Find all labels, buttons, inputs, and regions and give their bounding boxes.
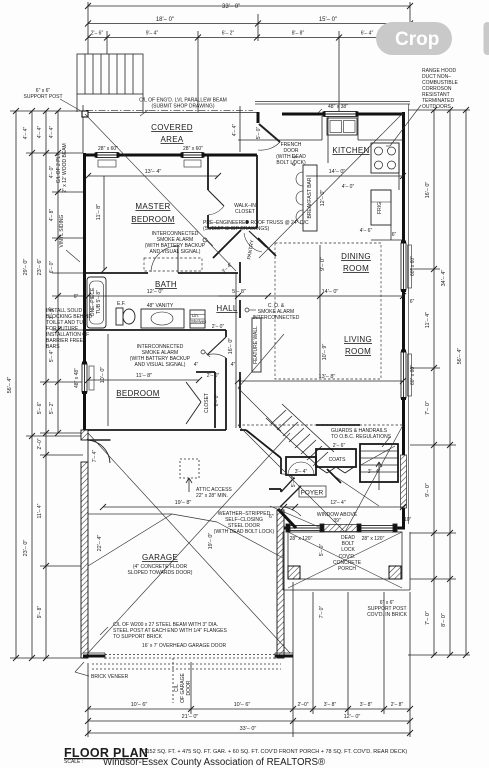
svg-text:13'– 8": 13'– 8": [319, 374, 336, 380]
svg-text:INTERCONNECTED: INTERCONNECTED: [253, 315, 300, 321]
dn arrow: [376, 462, 382, 490]
kitchen window 48x38: [324, 112, 357, 117]
svg-text:FRIG: FRIG: [377, 202, 383, 214]
vertical dim line bedroom 10'-0": [107, 334, 109, 426]
svg-text:5'– 6": 5'– 6": [37, 402, 43, 415]
svg-text:SLOPED TOWARDS DOOR): SLOPED TOWARDS DOOR): [128, 570, 193, 576]
svg-text:DINING: DINING: [341, 252, 371, 261]
svg-text:16' x 7' OVERHEAD GARAGE DOOR: 16' x 7' OVERHEAD GARAGE DOOR: [142, 643, 227, 649]
svg-text:21'– 0": 21'– 0": [182, 714, 199, 720]
pantry angled walls: [213, 230, 276, 258]
right dimension line 34'-4": [449, 110, 451, 655]
svg-text:KITCHEN: KITCHEN: [332, 146, 369, 155]
svg-text:19'– 0": 19'– 0": [208, 533, 214, 550]
svg-text:6": 6": [410, 299, 415, 305]
interior wall: bath top y=273: [84, 272, 238, 274]
svg-text:PORCH: PORCH: [338, 566, 356, 572]
svg-text:10": 10": [404, 517, 412, 523]
svg-text:BARS: BARS: [46, 344, 60, 350]
svg-text:HALL: HALL: [216, 304, 237, 313]
weather-stripped steel door garage/foyer: [281, 474, 294, 492]
svg-text:BEDROOM: BEDROOM: [131, 215, 174, 224]
svg-text:16'– 0": 16'– 0": [228, 338, 234, 355]
dim 13'-4" master bedroom: [88, 175, 218, 177]
svg-text:10'– 6": 10'– 6": [234, 702, 251, 708]
window 28x60 left: [96, 153, 118, 168]
svg-text:TUB 5'– 8": TUB 5'– 8": [96, 290, 102, 314]
svg-text:11'– 8": 11'– 8": [96, 204, 102, 220]
svg-text:11'– 4": 11'– 4": [37, 503, 43, 518]
svg-text:2'– 0": 2'– 0": [207, 373, 220, 379]
garage 19'-8" dim: [103, 506, 295, 508]
svg-text:7'– 0": 7'– 0": [425, 401, 431, 415]
foyer roof diagonals: [270, 446, 395, 527]
garage man-door opening + swing: [88, 440, 111, 463]
front wall brick hatch between windows: [324, 525, 357, 532]
svg-text:9'– 0": 9'– 0": [320, 257, 326, 271]
svg-text:8'– 0": 8'– 0": [441, 613, 447, 627]
toilet E.F.: [116, 308, 135, 325]
svg-text:Shelves: Shelves: [191, 319, 206, 324]
roof diagonal living to stairs: [238, 334, 284, 388]
svg-text:6'– 4": 6'– 4": [361, 31, 374, 37]
vanity 48" with sink: [141, 309, 184, 328]
svg-text:4'– 4": 4'– 4": [49, 126, 55, 139]
garage left wall brick veneer (hatched): [81, 430, 88, 658]
pantry door: [244, 231, 266, 252]
right dimension line 16'/11'-4"/7'/9'/7': [408, 110, 470, 655]
svg-text:5'– 2": 5'– 2": [291, 475, 297, 488]
svg-text:28" x 60": 28" x 60": [183, 146, 203, 152]
svg-text:3'– 4": 3'– 4": [368, 469, 381, 475]
svg-text:5'– 0": 5'– 0": [319, 544, 325, 557]
window foyer right (brick sill hatch): [401, 455, 407, 508]
svg-text:Windsor-Essex County Associati: Windsor-Essex County Association of REAL…: [103, 757, 325, 768]
dining/living dashed ceiling outline: [238, 243, 403, 425]
exterior wall: left wall of house: [83, 153, 86, 438]
svg-text:5'– 8": 5'– 8": [232, 289, 246, 295]
svg-text:4'– 6": 4'– 6": [360, 228, 373, 234]
svg-text:8'– 8": 8'– 8": [292, 31, 305, 37]
long roof diagonal master bedroom: [85, 114, 236, 271]
svg-text:9'– 4": 9'– 4": [146, 31, 159, 37]
svg-text:MASTER: MASTER: [135, 202, 170, 211]
svg-text:VINYL SIDING: VINYL SIDING: [59, 214, 65, 247]
foyer stair-down closet (hatched): [360, 444, 398, 482]
roof eave double line: [255, 102, 410, 105]
svg-text:5'– 4": 5'– 4": [49, 350, 55, 363]
linen shelves: [190, 310, 205, 328]
svg-text:39": 39": [333, 518, 341, 524]
dim 12'-0" bath: [88, 295, 238, 297]
svg-text:BEDROOM: BEDROOM: [116, 389, 159, 398]
left dimension line inner segments: [52, 111, 83, 433]
svg-text:2" x 12' WOOD BEAM: 2" x 12' WOOD BEAM: [62, 143, 68, 192]
kitchen sink double bowl: [327, 118, 357, 135]
svg-text:ROOM: ROOM: [345, 347, 371, 356]
deck support post: [82, 111, 88, 117]
svg-text:22'– 4": 22'– 4": [97, 535, 103, 552]
svg-text:5'– 0": 5'– 0": [256, 127, 262, 140]
svg-text:7'– 4": 7'– 4": [92, 450, 98, 463]
vertical dim line dining/living: [319, 245, 321, 378]
svg-text:56'– 4": 56'– 4": [7, 377, 13, 394]
svg-text:12'– 4": 12'– 4": [330, 500, 345, 506]
vertical dim line master bedroom 11'-8": [103, 176, 105, 270]
svg-text:(SUBMIT SHOP DRAWINGS): (SUBMIT SHOP DRAWINGS): [203, 226, 270, 232]
roof diagonal hall to porch: [238, 388, 281, 431]
svg-text:15'– 0": 15'– 0": [319, 17, 337, 23]
stairs to basement (diagonal): [266, 404, 334, 468]
tub (one-piece 5'-8"): [87, 277, 106, 328]
svg-text:10'– 0": 10'– 0": [100, 367, 106, 384]
svg-text:2'– 0": 2'– 0": [212, 324, 225, 330]
svg-text:34'– 4": 34'– 4": [441, 270, 447, 287]
svg-text:4'– 0": 4'– 0": [342, 184, 355, 190]
svg-text:60" x 60": 60" x 60": [410, 365, 416, 385]
bedroom door swing: [207, 337, 226, 358]
deck inner dim 4'-4": [239, 106, 241, 152]
svg-text:4": 4": [194, 362, 199, 368]
garage attic access dashed: [180, 459, 199, 478]
svg-text:BREAKFAST BAR: BREAKFAST BAR: [307, 177, 313, 218]
svg-text:6'– 0": 6'– 0": [49, 261, 55, 274]
svg-text:5'– 2": 5'– 2": [49, 402, 55, 415]
svg-text:2'–0": 2'–0": [297, 702, 308, 708]
svg-text:3'– 8": 3'– 8": [360, 702, 373, 708]
svg-text:12'– 0": 12'– 0": [147, 289, 164, 295]
covered deck edge: [83, 105, 257, 153]
svg-text:10'– 9": 10'– 9": [322, 344, 328, 361]
garage bottom wall with overhead door opening: [83, 655, 293, 658]
top dimension line segments 2'-6" 9'-4" 6'-2" 8'-8" 6'-4": [88, 31, 410, 112]
interior wall: kitchen/master bedroom vertical x=238: [239, 262, 241, 428]
bath door swing: [151, 246, 178, 273]
svg-text:12'– 0": 12'– 0": [344, 714, 361, 720]
svg-text:BRICK VENEER: BRICK VENEER: [91, 674, 129, 680]
exterior wall: right wall of house with windows: [402, 112, 405, 529]
svg-text:(1152 SQ. FT. + 475 SQ. FT. GA: (1152 SQ. FT. + 475 SQ. FT. GAR. + 60 SQ…: [142, 749, 407, 755]
svg-text:COV'D. IN BRICK: COV'D. IN BRICK: [367, 612, 408, 618]
svg-text:DOOR: DOOR: [186, 680, 192, 695]
porch support post left (brick): [288, 566, 300, 579]
svg-text:Lin.: Lin.: [192, 313, 199, 318]
svg-text:FOYER: FOYER: [301, 490, 324, 497]
deck stairs (hatched treads): [77, 54, 143, 112]
svg-text:TO O.B.C. REGULATIONS: TO O.B.C. REGULATIONS: [331, 434, 392, 440]
walk-in closet door: [208, 190, 224, 215]
svg-text:7'– 0": 7'– 0": [319, 606, 325, 619]
bottom dimension line segments: [88, 582, 410, 737]
svg-text:4'– 6": 4'– 6": [292, 154, 298, 167]
kitchen angled corner wall with french door: [258, 114, 282, 150]
svg-text:3'– 8": 3'– 8": [324, 702, 337, 708]
dim 5'-8" hall top: [218, 295, 268, 297]
overhead garage door dashed panels: [92, 655, 281, 670]
kitchen vertical dim 12'-0": [327, 116, 329, 163]
svg-text:18'– 0": 18'– 0": [156, 17, 174, 23]
walk-in closet walls: [208, 155, 257, 228]
svg-text:4'– 4": 4'– 4": [23, 127, 29, 140]
svg-text:22" x 28" MIN.: 22" x 28" MIN.: [196, 493, 228, 499]
svg-text:2'– 6": 2'– 6": [91, 31, 104, 37]
bottom dimension line 33'-0": [88, 732, 410, 734]
right edge pill fragment: [484, 22, 489, 55]
left dimension line 56'-4": [10, 111, 88, 658]
porch support post right (brick): [389, 566, 401, 579]
svg-text:2'– 8": 2'– 8": [391, 702, 404, 708]
kitchen side counter: [371, 143, 403, 240]
eave line right side: [408, 104, 410, 524]
svg-text:33'– 0": 33'– 0": [222, 4, 240, 10]
svg-text:60" x 60": 60" x 60": [410, 256, 416, 276]
right dimension line 56'-4": [465, 110, 467, 655]
dim 14'-0" dining: [238, 295, 403, 297]
svg-text:ROOM: ROOM: [343, 264, 369, 273]
svg-text:23'– 6": 23'– 6": [37, 259, 43, 276]
foyer left closet: [286, 457, 316, 475]
feature wall: [252, 318, 261, 372]
foyer coats closet: [316, 449, 356, 467]
svg-text:SCALE :: SCALE :: [64, 759, 83, 765]
svg-text:14'– 0": 14'– 0": [322, 289, 339, 295]
svg-text:(WITH DEAD BOLT LOCK): (WITH DEAD BOLT LOCK): [214, 529, 275, 535]
garage right wall brick veneer (hatched): [277, 510, 284, 658]
svg-text:6": 6": [392, 232, 397, 238]
svg-text:48" x 38": 48" x 38": [328, 104, 348, 110]
svg-text:12'– 0": 12'– 0": [320, 190, 326, 207]
svg-text:48" VANITY: 48" VANITY: [147, 303, 174, 309]
svg-text:BATH: BATH: [155, 280, 177, 289]
svg-text:TO SUPPORT BRICK: TO SUPPORT BRICK: [113, 634, 163, 640]
top dimension line 33'-0": [88, 2, 410, 54]
svg-text:28" x 120": 28" x 120": [362, 536, 385, 542]
svg-text:48" x 48": 48" x 48": [74, 368, 80, 388]
living room / foyer edge wall: [316, 424, 360, 426]
svg-text:LIVING: LIVING: [344, 335, 372, 344]
interior wall: bath/bedroom y=330: [84, 329, 226, 331]
svg-text:AREA: AREA: [161, 135, 184, 144]
window 60x60 dining: [401, 243, 412, 290]
svg-text:9'– 8": 9'– 8": [37, 606, 43, 619]
dim 13'-8" living: [238, 380, 403, 382]
corridor wall x=226 hall to foyer: [225, 330, 227, 430]
stair bottom rail end: [327, 469, 341, 483]
svg-text:11'– 8": 11'– 8": [136, 373, 152, 379]
long roof diagonal kitchen: [259, 113, 403, 258]
svg-text:4": 4": [231, 362, 236, 368]
svg-text:33'– 0": 33'– 0": [240, 726, 257, 732]
svg-text:28" x 60": 28" x 60": [98, 146, 118, 152]
porch diagonals: [238, 425, 403, 588]
front window 28x120 right: [357, 524, 397, 532]
svg-text:4'– 4": 4'– 4": [37, 126, 43, 139]
svg-text:9'– 0": 9'– 0": [425, 483, 431, 497]
svg-text:14'– 0": 14'– 0": [329, 169, 346, 175]
smoke alarm leaders: [205, 240, 213, 357]
svg-text:Crop: Crop: [395, 29, 439, 50]
front door leaf + swing: [280, 486, 301, 516]
Crop pill button: [376, 22, 452, 55]
svg-text:11'– 4": 11'– 4": [425, 312, 431, 328]
svg-text:4'– 0": 4'– 0": [49, 166, 55, 179]
svg-text:GARAGE: GARAGE: [142, 553, 178, 562]
svg-text:4'– 8": 4'– 8": [49, 209, 55, 222]
svg-text:COVERED: COVERED: [151, 123, 193, 132]
svg-text:E.F.: E.F.: [117, 301, 126, 307]
exterior wall: front foyer wall with 28x120 windows: [283, 527, 405, 530]
interior bearing wall: bedroom/garage top at y=430: [83, 430, 281, 492]
stove: [371, 143, 399, 173]
beam centerline dash-dot: [86, 109, 253, 111]
svg-text:AND VISUAL SIGNAL): AND VISUAL SIGNAL): [150, 249, 201, 255]
kitchen counters: [238, 116, 403, 140]
svg-text:FEATURE WALL: FEATURE WALL: [253, 326, 259, 364]
master bedroom dashed ceiling: [144, 258, 202, 271]
dim 12'-4" foyer: [284, 506, 403, 508]
svg-text:56'– 4": 56'– 4": [457, 348, 463, 365]
svg-text:CLOSET: CLOSET: [235, 209, 255, 215]
extension line bath wall: [52, 272, 83, 274]
svg-text:AND VISUAL SIGNAL): AND VISUAL SIGNAL): [135, 362, 186, 368]
svg-text:23'– 0": 23'– 0": [23, 540, 29, 557]
svg-text:28" x 120": 28" x 120": [290, 536, 313, 542]
svg-text:19'– 8": 19'– 8": [175, 500, 192, 506]
svg-text:7'– 0": 7'– 0": [425, 611, 431, 625]
foyer angled front door wall: [278, 509, 296, 528]
svg-text:10'– 6": 10'– 6": [131, 702, 148, 708]
breakfast bar: [296, 165, 317, 231]
svg-text:6'– 0": 6'– 0": [214, 394, 220, 407]
fridge: [371, 190, 391, 225]
svg-text:6": 6": [74, 294, 79, 300]
window jamb blocks: [82, 112, 406, 401]
svg-text:LOCK: LOCK: [341, 547, 355, 553]
bedroom closet bifold doors: [186, 382, 201, 424]
window 28x60 right: [182, 153, 203, 168]
bottom dimension line 21'-0" / 12'-0": [88, 720, 410, 722]
window 60x60 living: [401, 352, 412, 398]
svg-text:6": 6": [269, 514, 274, 520]
svg-text:2'–0": 2'–0": [37, 438, 43, 449]
svg-text:OUTDOORS: OUTDOORS: [422, 104, 452, 110]
top dimension line 18'-0" / 15'-0": [88, 14, 410, 41]
left dimension line 29'-0" / 23'-0": [26, 111, 83, 658]
front window 28x120 left: [286, 524, 324, 532]
bedroom closet: [196, 372, 215, 428]
svg-text:3'– 4": 3'– 4": [295, 469, 308, 475]
room label FOYER: [299, 486, 326, 497]
kitchen dim 14'-0": [306, 175, 403, 177]
svg-text:29'– 0": 29'– 0": [23, 259, 29, 276]
svg-text:13'– 4": 13'– 4": [145, 169, 162, 175]
exterior wall: top wall master bedroom section with two 28x60 windows: [83, 154, 257, 157]
garage roof diagonals: [88, 433, 290, 653]
svg-text:COATS: COATS: [329, 457, 347, 463]
bedroom window 48x48 on left wall: [82, 364, 94, 392]
vertical dim line corridor 16'-0": [235, 273, 237, 428]
svg-text:SUPPORT POST: SUPPORT POST: [24, 94, 63, 100]
covered front porch slab: [283, 532, 410, 590]
dim 11'-8" bedroom: [88, 379, 199, 381]
svg-text:6'– 2": 6'– 2": [222, 31, 235, 37]
exterior wall: kitchen top with 48x38 window: [258, 112, 405, 123]
svg-text:(SUBMIT SHOP DRAWING): (SUBMIT SHOP DRAWING): [152, 104, 215, 110]
svg-text:2'– 6": 2'– 6": [333, 443, 346, 449]
left dimension line 23'-6" / segments: [40, 111, 83, 658]
svg-text:4'– 4": 4'– 4": [232, 124, 238, 137]
svg-text:16'– 0": 16'– 0": [425, 182, 431, 199]
svg-text:CLOSET: CLOSET: [204, 393, 210, 413]
